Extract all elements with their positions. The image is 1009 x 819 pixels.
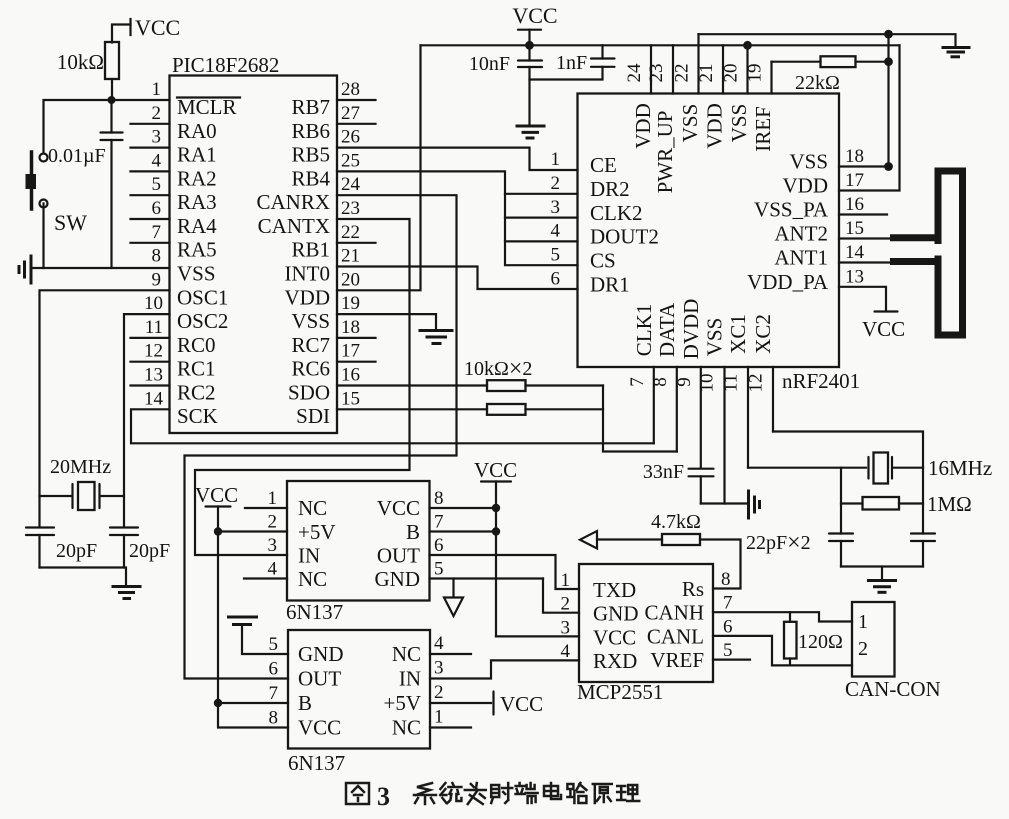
- wire pin 13 RC2 stub: [131, 384, 170, 386]
- wire U4 pin2 +5V to VCC: [430, 702, 491, 704]
- svg-text:RB7: RB7: [291, 95, 330, 119]
- svg-text:3: 3: [152, 127, 162, 148]
- wire RB5 pin26 to CE: [337, 148, 578, 170]
- svg-text:RB1: RB1: [291, 238, 330, 262]
- svg-text:CAN-CON: CAN-CON: [845, 677, 941, 701]
- svg-text:ANT2: ANT2: [774, 222, 828, 246]
- svg-text:VCC: VCC: [500, 692, 543, 716]
- svg-text:VCC: VCC: [377, 496, 420, 520]
- svg-text:NC: NC: [298, 496, 327, 520]
- ground arrow (open triangle): [444, 598, 463, 617]
- svg-text:CS: CS: [590, 249, 616, 273]
- pin 22 VSS (top): [697, 34, 699, 93]
- pin 9 DVDD (bottom): [700, 367, 702, 468]
- svg-text:RC6: RC6: [291, 357, 330, 381]
- wire CANRX pin24 down: [185, 195, 457, 678]
- caption 原: [593, 784, 612, 803]
- ground (10nF): [517, 126, 544, 138]
- svg-text:RC0: RC0: [177, 333, 216, 357]
- svg-text:21: 21: [696, 64, 717, 83]
- wire SDO pin16 to resistor: [337, 384, 487, 386]
- ground (top right): [943, 48, 969, 57]
- svg-text:CANH: CANH: [644, 601, 704, 625]
- ground (U4 pin5, bars up): [229, 617, 257, 625]
- svg-text:MCP2551: MCP2551: [577, 680, 663, 704]
- svg-text:IREF: IREF: [751, 106, 775, 152]
- svg-text:OSC2: OSC2: [177, 309, 228, 333]
- svg-text:6: 6: [723, 616, 733, 637]
- wire U4 pin1 NC stub: [430, 726, 471, 728]
- wire MCP VCC pin3: [496, 635, 579, 637]
- svg-text:12: 12: [746, 374, 767, 393]
- resistor R 1MΩ: [841, 468, 972, 534]
- wire INT0 pin21 to DR1: [337, 267, 578, 290]
- wire DVDD/VSS ground: [701, 502, 746, 504]
- svg-text:26: 26: [341, 127, 360, 148]
- svg-text:DATA: DATA: [655, 302, 679, 357]
- svg-text:16: 16: [845, 194, 864, 215]
- svg-text:14: 14: [144, 388, 164, 409]
- node MCLR junction: [108, 96, 116, 104]
- antenna loop element: [935, 168, 967, 175]
- svg-text:XC1: XC1: [726, 314, 750, 354]
- svg-text:VDD: VDD: [703, 103, 727, 149]
- caption 电: [544, 783, 561, 799]
- svg-text:VDD: VDD: [285, 286, 331, 310]
- svg-text:OUT: OUT: [377, 544, 420, 568]
- svg-text:16MHz: 16MHz: [928, 456, 992, 480]
- svg-text:VSS: VSS: [177, 262, 216, 286]
- svg-text:PWR_UP: PWR_UP: [653, 111, 677, 194]
- svg-text:7: 7: [723, 593, 733, 614]
- capacitor C 20pF (left): [26, 528, 97, 568]
- power VCC (U3 right): [474, 458, 517, 636]
- svg-text:VDD: VDD: [783, 174, 829, 198]
- caption 系: [414, 783, 436, 804]
- svg-text:VSS: VSS: [703, 318, 727, 357]
- svg-text:1: 1: [551, 149, 561, 170]
- wire pin 22 RB1 stub: [337, 242, 376, 244]
- svg-text:22: 22: [341, 222, 360, 243]
- wire SDI resistor to DATA node: [526, 408, 604, 410]
- svg-text:RA0: RA0: [177, 119, 217, 143]
- svg-text:RB5: RB5: [291, 143, 330, 167]
- svg-text:SDI: SDI: [296, 404, 330, 428]
- wire 22pF ground rail: [841, 565, 923, 567]
- svg-text:VCC: VCC: [474, 458, 517, 482]
- svg-text:33nF: 33nF: [643, 461, 684, 483]
- svg-text:120Ω: 120Ω: [798, 631, 843, 653]
- crystal Y2 16MHz: [869, 453, 993, 484]
- svg-text:SDO: SDO: [288, 381, 330, 405]
- wire SCK pin14 to CLK1: [131, 409, 654, 443]
- svg-text:5: 5: [551, 245, 561, 266]
- power VCC (top-left): [112, 15, 180, 43]
- pin 14 ANT1 (right): [839, 261, 890, 263]
- svg-text:1: 1: [858, 611, 868, 633]
- wire pin 4 RA2 stub: [131, 170, 170, 172]
- wire junction to switch: [44, 100, 112, 153]
- pin 10 VSS (bottom): [723, 367, 725, 504]
- wire SDO resistor to DATA node: [526, 384, 604, 386]
- capacitor C 20pF (right): [110, 528, 170, 568]
- svg-text:CANRX: CANRX: [256, 190, 330, 214]
- wire DR2 stub to CS net: [505, 193, 578, 195]
- svg-text:NC: NC: [392, 716, 421, 740]
- svg-text:2: 2: [858, 638, 868, 660]
- svg-text:CLK2: CLK2: [590, 201, 643, 225]
- capacitor C 22pF (right): [911, 534, 935, 567]
- pin 11 XC1 (bottom): [747, 367, 749, 468]
- svg-text:ANT1: ANT1: [774, 246, 828, 270]
- wire U3 pin4 NC stub: [244, 577, 287, 579]
- svg-text:2: 2: [434, 682, 444, 703]
- svg-text:21: 21: [341, 246, 360, 267]
- SECTION: antenna: [890, 168, 966, 339]
- svg-text:23: 23: [646, 64, 667, 83]
- svg-text:12: 12: [144, 341, 163, 362]
- svg-text:8: 8: [434, 488, 444, 509]
- wire crystal ground rail: [40, 568, 127, 587]
- svg-text:B: B: [406, 520, 420, 544]
- svg-text:VSS: VSS: [678, 104, 702, 143]
- pin 8 DATA (bottom): [676, 367, 678, 452]
- wire pin 27 RB6 stub: [337, 123, 376, 125]
- wire VCC rail: [421, 44, 900, 46]
- IC U2 nRF2401 body: [578, 94, 840, 368]
- svg-text:4: 4: [268, 559, 278, 580]
- node VCC rail junction: [525, 41, 534, 50]
- svg-text:20: 20: [341, 269, 360, 290]
- svg-text:6N137: 6N137: [288, 751, 345, 775]
- SECTION: top-left reset circuit: [19, 15, 180, 283]
- svg-text:7: 7: [152, 222, 162, 243]
- SECTION: nRF2401: [551, 34, 906, 503]
- crystal Y1 20MHz: [40, 456, 125, 510]
- svg-text:16: 16: [341, 365, 360, 386]
- svg-text:RA1: RA1: [177, 143, 217, 167]
- svg-text:2: 2: [561, 594, 571, 615]
- svg-text:RA5: RA5: [177, 238, 217, 262]
- capacitor C 1nF: [530, 45, 615, 79]
- capacitor C 22pF (left): [829, 534, 853, 567]
- svg-text:4: 4: [434, 633, 444, 654]
- svg-text:1: 1: [268, 488, 278, 509]
- svg-text:15: 15: [341, 388, 360, 409]
- power VCC (top middle): [512, 3, 557, 45]
- wire U4 pin4 NC stub: [430, 653, 471, 655]
- svg-text:VCC: VCC: [512, 3, 557, 28]
- svg-text:RA4: RA4: [177, 214, 217, 238]
- svg-text:11: 11: [721, 374, 742, 392]
- svg-text:5: 5: [723, 640, 733, 661]
- antenna feed ANT1: [890, 258, 942, 265]
- svg-text:VCC: VCC: [195, 483, 238, 507]
- node pin8 junction: [492, 504, 500, 512]
- node B junction: [214, 699, 222, 707]
- svg-text:22: 22: [672, 64, 693, 83]
- svg-text:4: 4: [551, 221, 561, 242]
- svg-text:VCC: VCC: [298, 716, 341, 740]
- svg-text:3: 3: [377, 782, 390, 811]
- svg-text:CANL: CANL: [647, 624, 704, 648]
- svg-text:9: 9: [152, 269, 162, 290]
- IC U3 6N137 body (upper): [287, 481, 430, 601]
- arrow (open, left): [580, 531, 597, 549]
- wire OSC2 pin 10 to crystal: [124, 314, 170, 527]
- wire U4 pin3 IN to MCP RXD: [430, 660, 579, 678]
- svg-text:28: 28: [341, 79, 360, 100]
- caption 发: [465, 783, 486, 804]
- svg-text:7: 7: [627, 377, 648, 387]
- svg-text:10: 10: [697, 374, 718, 393]
- svg-text:VDD_PA: VDD_PA: [747, 270, 829, 294]
- power VCC (U4 right): [494, 692, 544, 717]
- pin 7 CLK1 (bottom): [653, 367, 655, 443]
- wire switch to VSS rail: [42, 204, 44, 269]
- svg-text:6: 6: [434, 535, 444, 556]
- wire pin 5 RA3 stub: [131, 194, 170, 196]
- svg-text:3: 3: [434, 658, 444, 679]
- svg-text:nRF2401: nRF2401: [782, 369, 860, 393]
- wire XC1 to crystal: [748, 467, 866, 469]
- svg-text:XC2: XC2: [751, 314, 775, 354]
- pin 21 VDD (top): [722, 45, 724, 93]
- wire GND arrow stub: [452, 579, 454, 598]
- svg-text:14: 14: [845, 242, 865, 263]
- svg-text:3: 3: [268, 535, 278, 556]
- svg-text:VREF: VREF: [650, 648, 704, 672]
- svg-text:17: 17: [341, 341, 360, 362]
- resistor R 10kΩ (SDO): [487, 380, 526, 391]
- wire pin 19 VSS to ground: [337, 314, 436, 330]
- svg-text:SCK: SCK: [177, 404, 218, 428]
- caption 路: [567, 783, 586, 803]
- svg-text:6N137: 6N137: [286, 600, 343, 624]
- svg-text:1nF: 1nF: [556, 52, 587, 74]
- svg-text:6: 6: [551, 269, 561, 290]
- SECTION: top rails and decoupling: [337, 3, 969, 290]
- caption 统: [440, 783, 461, 803]
- svg-text:8: 8: [269, 708, 279, 729]
- svg-text:5: 5: [434, 559, 444, 580]
- node +5V junction: [214, 527, 222, 535]
- pin 12 XC2 (bottom): [772, 367, 774, 432]
- SECTION: optocouplers: [195, 458, 579, 775]
- SECTION: crystal 16MHz: [643, 432, 992, 593]
- SECTION: MCP2551 and CAN: [496, 511, 941, 704]
- svg-text:10kΩ×2: 10kΩ×2: [464, 356, 532, 382]
- resistor R 10kΩ pull-up: [57, 42, 119, 100]
- pin 20 VSS (top): [746, 45, 748, 93]
- svg-text:VCC: VCC: [862, 317, 905, 341]
- resistor R 120Ω: [784, 612, 843, 665]
- svg-text:RA2: RA2: [177, 167, 217, 191]
- wire ground rail (top right): [699, 34, 956, 47]
- svg-text:9: 9: [674, 377, 695, 387]
- pin 23 PWR_UP (top): [672, 45, 674, 93]
- power VCC (U3 left): [195, 483, 288, 728]
- wire DATA node down and over to pin 8: [603, 386, 677, 452]
- svg-text:1: 1: [561, 570, 571, 591]
- svg-text:6: 6: [269, 659, 279, 680]
- svg-text:6: 6: [152, 198, 162, 219]
- pin 18 VSS (right): [839, 165, 889, 167]
- svg-text:5: 5: [269, 634, 279, 655]
- svg-text:RXD: RXD: [593, 649, 637, 673]
- ground (left, sideways): [19, 256, 31, 283]
- resistor R 10kΩ (SDI): [487, 404, 526, 415]
- ground (20pF rail): [113, 587, 140, 599]
- svg-text:VSS: VSS: [727, 104, 751, 143]
- wire U3 pin7 B: [430, 530, 497, 532]
- svg-text:20pF: 20pF: [129, 540, 170, 562]
- svg-text:23: 23: [341, 198, 360, 219]
- svg-text:10kΩ: 10kΩ: [57, 50, 104, 74]
- svg-text:RC1: RC1: [177, 357, 216, 381]
- connector CAN-CON: [845, 602, 941, 701]
- wire RB4 pin25 to CS: [337, 171, 578, 265]
- svg-text:18: 18: [341, 317, 360, 338]
- svg-text:GND: GND: [375, 567, 421, 591]
- svg-text:RC7: RC7: [291, 333, 330, 357]
- svg-text:5: 5: [152, 174, 162, 195]
- svg-text:GND: GND: [298, 642, 344, 666]
- svg-text:+5V: +5V: [383, 691, 421, 715]
- wire MCP GND pin2: [543, 579, 579, 613]
- wire pin 12 RC1 stub: [131, 361, 170, 363]
- svg-text:3: 3: [561, 617, 571, 638]
- capacitor C 33nF (DVDD): [643, 461, 714, 504]
- wire U3 pin1 NC stub: [245, 507, 287, 509]
- svg-text:VSS: VSS: [789, 150, 828, 174]
- svg-text:25: 25: [341, 150, 360, 171]
- svg-text:GND: GND: [593, 602, 639, 626]
- pin 13 VDD_PA (right): [839, 287, 886, 310]
- svg-text:IN: IN: [298, 544, 320, 568]
- wire pin 6 RA4 stub: [131, 218, 170, 220]
- resistor R 4.7kΩ (Rs): [597, 511, 741, 589]
- wire U3 pin5 GND: [430, 577, 544, 579]
- svg-text:10: 10: [144, 293, 163, 314]
- svg-text:13: 13: [144, 365, 163, 386]
- svg-text:NC: NC: [298, 567, 327, 591]
- svg-text:24: 24: [341, 174, 361, 195]
- svg-text:DVDD: DVDD: [679, 299, 703, 360]
- power VCC (VDD_PA): [862, 312, 905, 342]
- svg-text:NC: NC: [392, 642, 421, 666]
- svg-text:OSC1: OSC1: [177, 286, 228, 310]
- switch SW push-button: [26, 152, 88, 235]
- svg-text:4.7kΩ: 4.7kΩ: [651, 511, 701, 533]
- wire ground rail to nRF VSS pin 18: [887, 34, 889, 166]
- svg-text:VSS_PA: VSS_PA: [754, 198, 829, 222]
- IC U4 6N137 body (lower): [288, 630, 430, 749]
- svg-text:+5V: +5V: [298, 520, 336, 544]
- svg-text:11: 11: [145, 317, 163, 338]
- wire VREF pin5 stub: [713, 658, 750, 660]
- svg-text:RB6: RB6: [291, 119, 330, 143]
- wire pin 1 MCLR: [112, 99, 170, 101]
- capacitor C 10nF: [469, 45, 542, 125]
- svg-text:10nF: 10nF: [469, 53, 510, 75]
- ground (22pF rail): [869, 581, 896, 593]
- wire pin 28 RB7 stub: [337, 99, 376, 101]
- svg-text:27: 27: [341, 103, 360, 124]
- svg-text:4: 4: [561, 641, 571, 662]
- antenna feed ANT2: [890, 234, 942, 241]
- caption 图: [346, 783, 369, 804]
- svg-text:20MHz: 20MHz: [50, 456, 111, 478]
- ground (PIC VSS pin 19): [420, 331, 452, 344]
- resistor R 22kΩ (IREF): [772, 56, 889, 94]
- caption 端: [516, 783, 538, 803]
- node pin7 junction: [492, 527, 500, 535]
- svg-text:15: 15: [845, 218, 864, 239]
- IC U5 MCP2551 body: [579, 564, 713, 682]
- svg-text:SW: SW: [54, 210, 87, 235]
- svg-text:24: 24: [624, 63, 645, 83]
- svg-text:CE: CE: [590, 153, 617, 177]
- wire pin 2 RA0 stub: [131, 123, 170, 125]
- svg-text:13: 13: [845, 267, 864, 288]
- wire U4 pin7 B: [218, 702, 288, 704]
- svg-text:VSS: VSS: [291, 309, 330, 333]
- capacitor C 0.01µF: [48, 100, 123, 268]
- svg-text:8: 8: [721, 569, 731, 590]
- svg-text:3: 3: [551, 197, 561, 218]
- wire pin 3 RA1 stub: [131, 147, 170, 149]
- svg-text:TXD: TXD: [593, 578, 636, 602]
- wire pin 7 RA5 stub: [131, 242, 170, 244]
- svg-text:17: 17: [845, 170, 864, 191]
- caption 射: [491, 783, 512, 803]
- node ground rail junction: [884, 30, 893, 39]
- svg-text:PIC18F2682: PIC18F2682: [172, 53, 279, 77]
- wire VSS rail (pin 8): [32, 267, 170, 269]
- svg-text:B: B: [298, 691, 312, 715]
- wire VCC rail to nRF VDD pin 17: [839, 45, 900, 190]
- svg-text:7: 7: [269, 683, 279, 704]
- SECTION: PIC18F2682: [112, 53, 453, 433]
- svg-text:0.01µF: 0.01µF: [48, 145, 106, 167]
- IC U1 PIC18F2682 body: [170, 76, 338, 434]
- svg-text:1: 1: [152, 79, 162, 100]
- wire SDI pin15 to resistor: [337, 408, 487, 410]
- ground (nRF VSS, sideways): [749, 491, 760, 518]
- svg-text:Rs: Rs: [682, 577, 704, 601]
- SECTION: caption: [346, 782, 639, 811]
- svg-text:VCC: VCC: [593, 625, 636, 649]
- svg-text:4: 4: [152, 150, 162, 171]
- wire pin 11 RC0 stub: [131, 337, 170, 339]
- svg-text:VDD: VDD: [631, 103, 655, 149]
- svg-text:RA3: RA3: [177, 190, 217, 214]
- wire U3 pin6 OUT to MCP TXD: [430, 555, 580, 589]
- pin 15 ANT2 (right): [839, 237, 890, 239]
- svg-text:DR1: DR1: [590, 273, 630, 297]
- svg-text:20: 20: [721, 64, 742, 83]
- svg-text:VCC: VCC: [135, 15, 180, 40]
- svg-text:19: 19: [341, 293, 360, 314]
- svg-text:CANTX: CANTX: [258, 214, 330, 238]
- wire XC2 over and down to crystal right: [773, 432, 923, 468]
- caption 理: [617, 785, 639, 801]
- pin 24 VDD (top): [650, 45, 652, 93]
- pin 16 VSS_PA (right): [839, 213, 887, 215]
- wire CANL pin6 to connector: [713, 636, 852, 666]
- wire OSC1 pin 9 to crystal: [40, 290, 170, 527]
